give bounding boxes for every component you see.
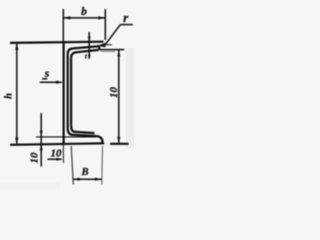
height h: dimension line bbox=[16, 43, 18, 144]
bottom outline line (outer bottom surface / construction line) bbox=[10, 143, 104, 145]
svg-text:B: B bbox=[80, 167, 88, 178]
width B: left extension line bbox=[71, 146, 73, 185]
bottom flange toe arc and tip edge bbox=[97, 136, 102, 143]
flange thickness 10: lower arrowhead (points up) bbox=[40, 144, 43, 150]
dimension b: left arrowhead bbox=[63, 16, 70, 19]
flange thickness 10: upper arrowhead (points down) bbox=[40, 131, 43, 137]
thickness t: lower arrowhead (points up) bbox=[88, 51, 91, 57]
svg-text:10: 10 bbox=[29, 152, 41, 164]
flange thickness 10 (vertical): dimension line bbox=[40, 113, 42, 167]
svg-text:h: h bbox=[3, 93, 14, 99]
top outline line (outer top surface / construction line) bbox=[10, 42, 104, 43]
dimension b: right extension line bbox=[104, 9, 106, 40]
width B: right arrowhead bbox=[95, 178, 102, 181]
width B: right extension line bbox=[101, 146, 104, 185]
right dimension (4): dimension line bbox=[118, 50, 120, 143]
inner contour A: top arc and top flange inner line bbox=[68, 46, 100, 54]
height h: bottom arrowhead bbox=[15, 138, 18, 145]
svg-text:s: s bbox=[44, 66, 50, 80]
right dimension (4): top extension line bbox=[100, 49, 125, 51]
inner contour A: bottom arc and bottom flange line bbox=[68, 128, 97, 136]
width B: dimension line bbox=[73, 178, 102, 180]
right dimension (4): bottom arrowhead bbox=[117, 137, 120, 144]
inner contour B: top arc and top flange inner line bbox=[71, 50, 99, 58]
inner contour B: web line bbox=[70, 58, 72, 126]
web thickness s: dimension line bbox=[40, 81, 62, 83]
web thickness s: arrowhead (points right at web) bbox=[56, 81, 63, 84]
offset 10: arrowhead (points right) bbox=[56, 158, 63, 161]
dimension b: left extension line bbox=[62, 9, 64, 42]
offset 10 (horizontal): dimension line bbox=[48, 158, 62, 160]
web thickness s: underline dash bbox=[42, 78, 47, 80]
svg-text:10: 10 bbox=[51, 147, 63, 159]
dimension b: right arrowhead bbox=[98, 16, 105, 19]
width B: left arrowhead bbox=[73, 178, 80, 181]
inner contour A: web line bbox=[67, 54, 69, 128]
faint inner-face extension echo bbox=[101, 51, 116, 53]
faint scan streak bbox=[126, 48, 134, 148]
svg-text:b: b bbox=[81, 6, 87, 18]
height h: top arrowhead bbox=[15, 43, 18, 50]
right dimension (4): top arrowhead bbox=[117, 50, 120, 57]
radius r: leader tail dash bbox=[105, 44, 112, 46]
svg-text:10: 10 bbox=[108, 87, 120, 99]
web outer face (left vertical of profile) bbox=[62, 42, 64, 144]
dimension b: dimension line bbox=[63, 17, 105, 19]
web outer face extension below profile bbox=[62, 145, 64, 164]
extension line through bottom flange (thickness gauge line) bbox=[36, 136, 96, 138]
thickness t: upper arrow line bbox=[88, 32, 90, 59]
bottom outline right stub bbox=[110, 143, 129, 145]
radius r: leader shelf bbox=[120, 24, 132, 26]
thickness t: upper arrowhead (points down) bbox=[88, 37, 91, 43]
top flange tip edge bbox=[98, 46, 100, 50]
radius r: leader diagonal bbox=[106, 25, 121, 44]
radius r: leader arrowhead bbox=[97, 43, 105, 47]
inner contour B: bottom arc and bottom flange line bbox=[71, 125, 94, 133]
